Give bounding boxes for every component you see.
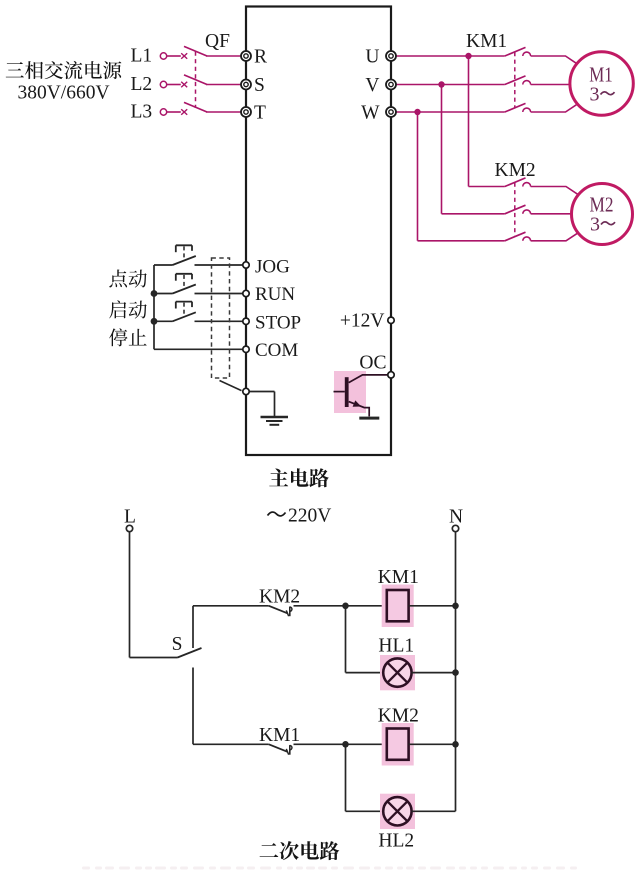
- svg-text:220V: 220V: [288, 506, 331, 527]
- svg-text:S: S: [254, 75, 265, 96]
- svg-text:COM: COM: [255, 340, 298, 361]
- svg-text:OC: OC: [359, 352, 386, 373]
- svg-text:L3: L3: [131, 102, 153, 123]
- svg-text:R: R: [254, 47, 267, 68]
- svg-text:KM2: KM2: [495, 160, 536, 181]
- svg-text:L1: L1: [131, 46, 153, 67]
- svg-text:STOP: STOP: [255, 313, 301, 334]
- svg-text:S: S: [172, 634, 183, 655]
- svg-text:KM2: KM2: [259, 587, 300, 608]
- svg-text:L2: L2: [131, 74, 153, 95]
- svg-text:N: N: [449, 507, 463, 528]
- svg-text:KM2: KM2: [378, 706, 419, 727]
- svg-text:3: 3: [590, 213, 600, 235]
- svg-text:KM1: KM1: [259, 725, 300, 746]
- svg-text:L: L: [124, 507, 136, 528]
- svg-text:3: 3: [590, 83, 600, 105]
- svg-text:RUN: RUN: [255, 284, 295, 305]
- svg-text:HL1: HL1: [378, 636, 414, 657]
- svg-text:HL2: HL2: [378, 830, 414, 851]
- svg-text:U: U: [365, 47, 379, 68]
- svg-text:KM1: KM1: [378, 567, 419, 588]
- svg-text:+12V: +12V: [340, 310, 385, 331]
- svg-text:W: W: [361, 103, 380, 124]
- svg-text:T: T: [254, 103, 266, 124]
- svg-text:JOG: JOG: [255, 257, 290, 278]
- svg-text:380V/660V: 380V/660V: [17, 83, 109, 104]
- svg-text:V: V: [365, 75, 379, 96]
- svg-text:KM1: KM1: [466, 31, 507, 52]
- svg-text:QF: QF: [205, 31, 230, 52]
